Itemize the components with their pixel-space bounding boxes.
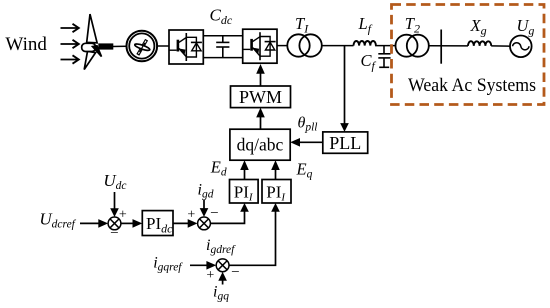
wire T1 to Lf with junction — [322, 45, 354, 47]
i_gq label — [213, 284, 229, 303]
i_gqref label — [153, 255, 183, 274]
Xg label — [470, 16, 487, 38]
inductor Xg — [468, 41, 491, 46]
U_dcref label — [39, 210, 76, 231]
bus bar — [440, 30, 442, 64]
wire junction to PLL — [340, 46, 349, 132]
Lf label — [358, 14, 373, 36]
wire Xg to Ug — [491, 45, 510, 47]
arrow PI_dc to sum2 — [173, 219, 198, 228]
svg-text:+: + — [187, 207, 195, 222]
wire generator to converter 1 — [157, 45, 169, 47]
wire Lf to T2 — [375, 45, 395, 47]
C_dc label — [210, 6, 233, 28]
converter VSC1 — [169, 30, 203, 64]
svg-text:+: + — [206, 268, 214, 283]
PWM box — [231, 86, 291, 108]
theta_pll label — [298, 115, 318, 134]
U_dc label — [103, 171, 126, 192]
PLL box — [323, 132, 368, 153]
capacitor Cdc — [216, 36, 229, 58]
arrow PI_I right to dq/abc — [271, 160, 280, 179]
arrow igd to sum2 — [200, 200, 209, 217]
transformer T1 — [287, 34, 322, 56]
inductor Lf — [354, 41, 376, 46]
sum3 signs — [206, 264, 239, 283]
E_d label — [210, 157, 227, 178]
wire T2 to Xg — [429, 45, 468, 47]
converter VSC2 — [243, 29, 277, 63]
Cf label — [361, 51, 377, 73]
generator G — [127, 31, 158, 62]
PI_I box right — [262, 180, 291, 204]
wind turbine — [82, 14, 114, 69]
T1 label — [295, 14, 309, 36]
wire sum2 to PI_I left — [210, 203, 248, 223]
transformer T2 — [396, 35, 429, 57]
dq/abc box — [230, 129, 290, 160]
PI_I box left — [230, 180, 259, 204]
Ug label — [517, 16, 535, 38]
sum2 signs — [187, 206, 218, 223]
svg-text:PWM: PWM — [239, 87, 282, 107]
svg-text:PLL: PLL — [329, 133, 361, 153]
sum1 signs — [110, 208, 127, 242]
E_q label — [296, 160, 313, 181]
arrow PI_I left to dq/abc — [240, 160, 249, 179]
summing node S1 — [108, 217, 121, 230]
capacitor Cf to ground — [378, 46, 390, 68]
arrow Udc to sum1 — [110, 192, 119, 217]
T2 label — [405, 14, 420, 36]
summing node S2 — [198, 217, 211, 230]
wind label — [5, 34, 47, 55]
wire turbine to generator — [112, 45, 127, 47]
wire VSC2 to T1 — [277, 45, 287, 47]
i_gdref label — [206, 237, 236, 256]
Weak Ac Systems label — [408, 75, 536, 96]
PI_dc box — [142, 211, 173, 236]
summing node S3 — [216, 259, 229, 272]
wind arrows — [61, 24, 79, 64]
arrow dq/abc to PWM — [256, 108, 265, 130]
i_gd label — [198, 182, 214, 201]
arrow igqref to sum3 — [190, 261, 216, 270]
arrow sum1 to PI_dc — [121, 219, 142, 228]
dc link rails — [203, 36, 242, 58]
svg-text:−: − — [231, 264, 239, 280]
arrow PWM to VSC2 — [256, 64, 265, 86]
arrow igq to sum3 — [218, 272, 227, 285]
svg-text:Wind: Wind — [5, 34, 47, 55]
svg-text:Weak Ac Systems: Weak Ac Systems — [408, 75, 536, 96]
wire sum3 to PI_I right — [229, 203, 280, 265]
arrow PLL to dq/abc — [290, 138, 323, 147]
svg-text:−: − — [210, 206, 218, 222]
svg-text:dq/abc: dq/abc — [237, 134, 284, 154]
source Ug — [510, 36, 532, 58]
arrow Udcref to sum1 — [80, 219, 108, 228]
weak ac systems dashed box — [392, 5, 545, 105]
